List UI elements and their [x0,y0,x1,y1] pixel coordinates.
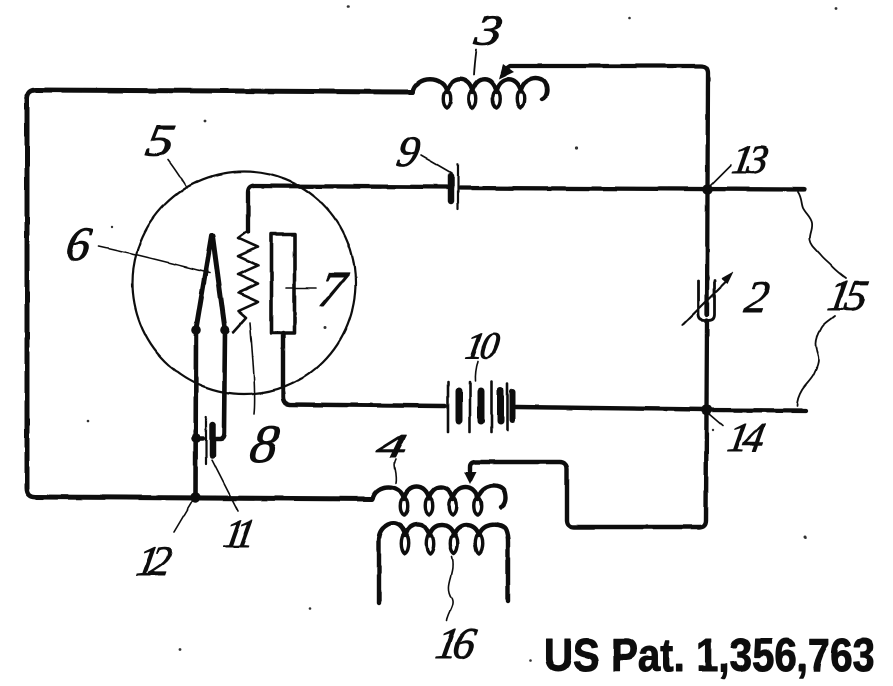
coil 16 (secondary, humps) [379,523,508,603]
leader for label 5 [168,160,187,188]
capacitor 11 thin plate [205,417,207,464]
label 13 [728,136,771,182]
wire: variable capacitor 2 to node 14 [704,321,709,411]
leader for label 3 [474,50,477,75]
leader for label 10 [475,361,478,381]
leader for label 14 [709,414,723,426]
svg-text:10: 10 [462,326,503,367]
leader for label 12 [174,500,193,532]
wire: node 14 right stub [707,408,807,413]
svg-text:14: 14 [724,414,767,460]
label 15 [824,270,871,320]
leader for label 4 [395,459,397,483]
capacitor 9 thin long plate [457,164,459,209]
svg-text:5: 5 [142,116,179,167]
wire: grid line from tube to capacitor 9 [248,186,447,232]
node 12 [190,492,201,503]
coil 4 (primary, humps) [372,486,506,515]
node: filament right-leg junction dot [220,325,230,335]
leader for label 8 [250,323,255,414]
wire: outer left loop (top wire, left wire, bottom wire) [27,90,413,499]
caption: US Pat. 1,356,763 [544,629,875,681]
leader for label 9 [421,155,452,173]
leader for label 7 [286,287,316,289]
wire: filament left leg down to node 12 [193,330,198,497]
label 10 [462,326,503,367]
svg-text:13: 13 [728,136,771,182]
wire: filament right leg down to capacitor 11 [216,330,225,438]
label 9 [393,126,424,176]
leader for label 16 [447,557,453,621]
node 14 [701,405,712,416]
label 16 [432,618,480,668]
label 8 [246,414,283,474]
node 13 [702,184,713,195]
coil 4 loops [400,497,482,515]
svg-text:7: 7 [315,261,352,317]
svg-text:6: 6 [62,218,95,271]
label 5 [142,116,179,167]
label 12 [133,538,175,585]
brace 15 upper wavy [797,192,846,406]
wire: plate lead down and right to battery 10 [283,333,445,406]
wire: coil-3 tap to right-side vertical down to node 13 [499,64,708,189]
arrowhead of coil 4 tap [464,472,476,484]
wire: node 14 down + staircase to coil 4 tap [464,410,707,527]
svg-text:15: 15 [824,270,871,320]
svg-text:3: 3 [470,5,506,54]
node: filament left-leg junction dot [191,325,201,335]
battery 10 [448,382,513,432]
label 14 [724,414,767,460]
variable capacitor 2 arrow [683,281,727,325]
grid leak resistor 8 (zigzag) [234,231,259,332]
leader for label 11 [212,460,238,511]
filament 6 (V shape) [196,236,225,329]
svg-text:9: 9 [393,126,424,176]
leader for label 13 [710,165,731,186]
wire: capacitor 9 to node 13 and right stub [460,188,804,190]
label 2 [741,272,773,323]
svg-text:4: 4 [374,427,410,465]
svg-text:16: 16 [432,618,480,668]
wire: node 13 down to variable capacitor 2 [705,190,710,316]
wire: stub from left leg to capacitor 11 [196,436,203,440]
variable capacitor 2 (U-shaped plate) [683,272,734,325]
capacitor 11 thick plate [196,417,213,464]
arrowhead of coil 3 tap [499,64,514,79]
label 11 [220,511,255,556]
tube envelope circle 5 [133,172,356,395]
capacitor 9 (thick short plate) [451,164,458,209]
svg-text:12: 12 [133,538,175,585]
label 7 [315,261,352,317]
svg-text:8: 8 [246,414,283,474]
coil 3 loops [443,90,525,108]
node: dot on left leg at capacitor 11 [191,433,201,443]
brace 15 lower wavy [797,316,835,406]
coil 16 loops [401,533,483,554]
coil 3 (variable inductor, humps) [413,78,547,108]
plate 7 (rectangle) [272,234,295,333]
label 3 [470,5,506,54]
label 6 [62,218,95,271]
svg-text:2: 2 [741,272,773,323]
label 4 [374,427,410,465]
svg-text:US Pat. 1,356,763: US Pat. 1,356,763 [544,629,875,681]
svg-text:11: 11 [220,511,255,556]
wire: battery 10 to node 14 [516,407,707,410]
leader for label 6 [99,246,210,273]
